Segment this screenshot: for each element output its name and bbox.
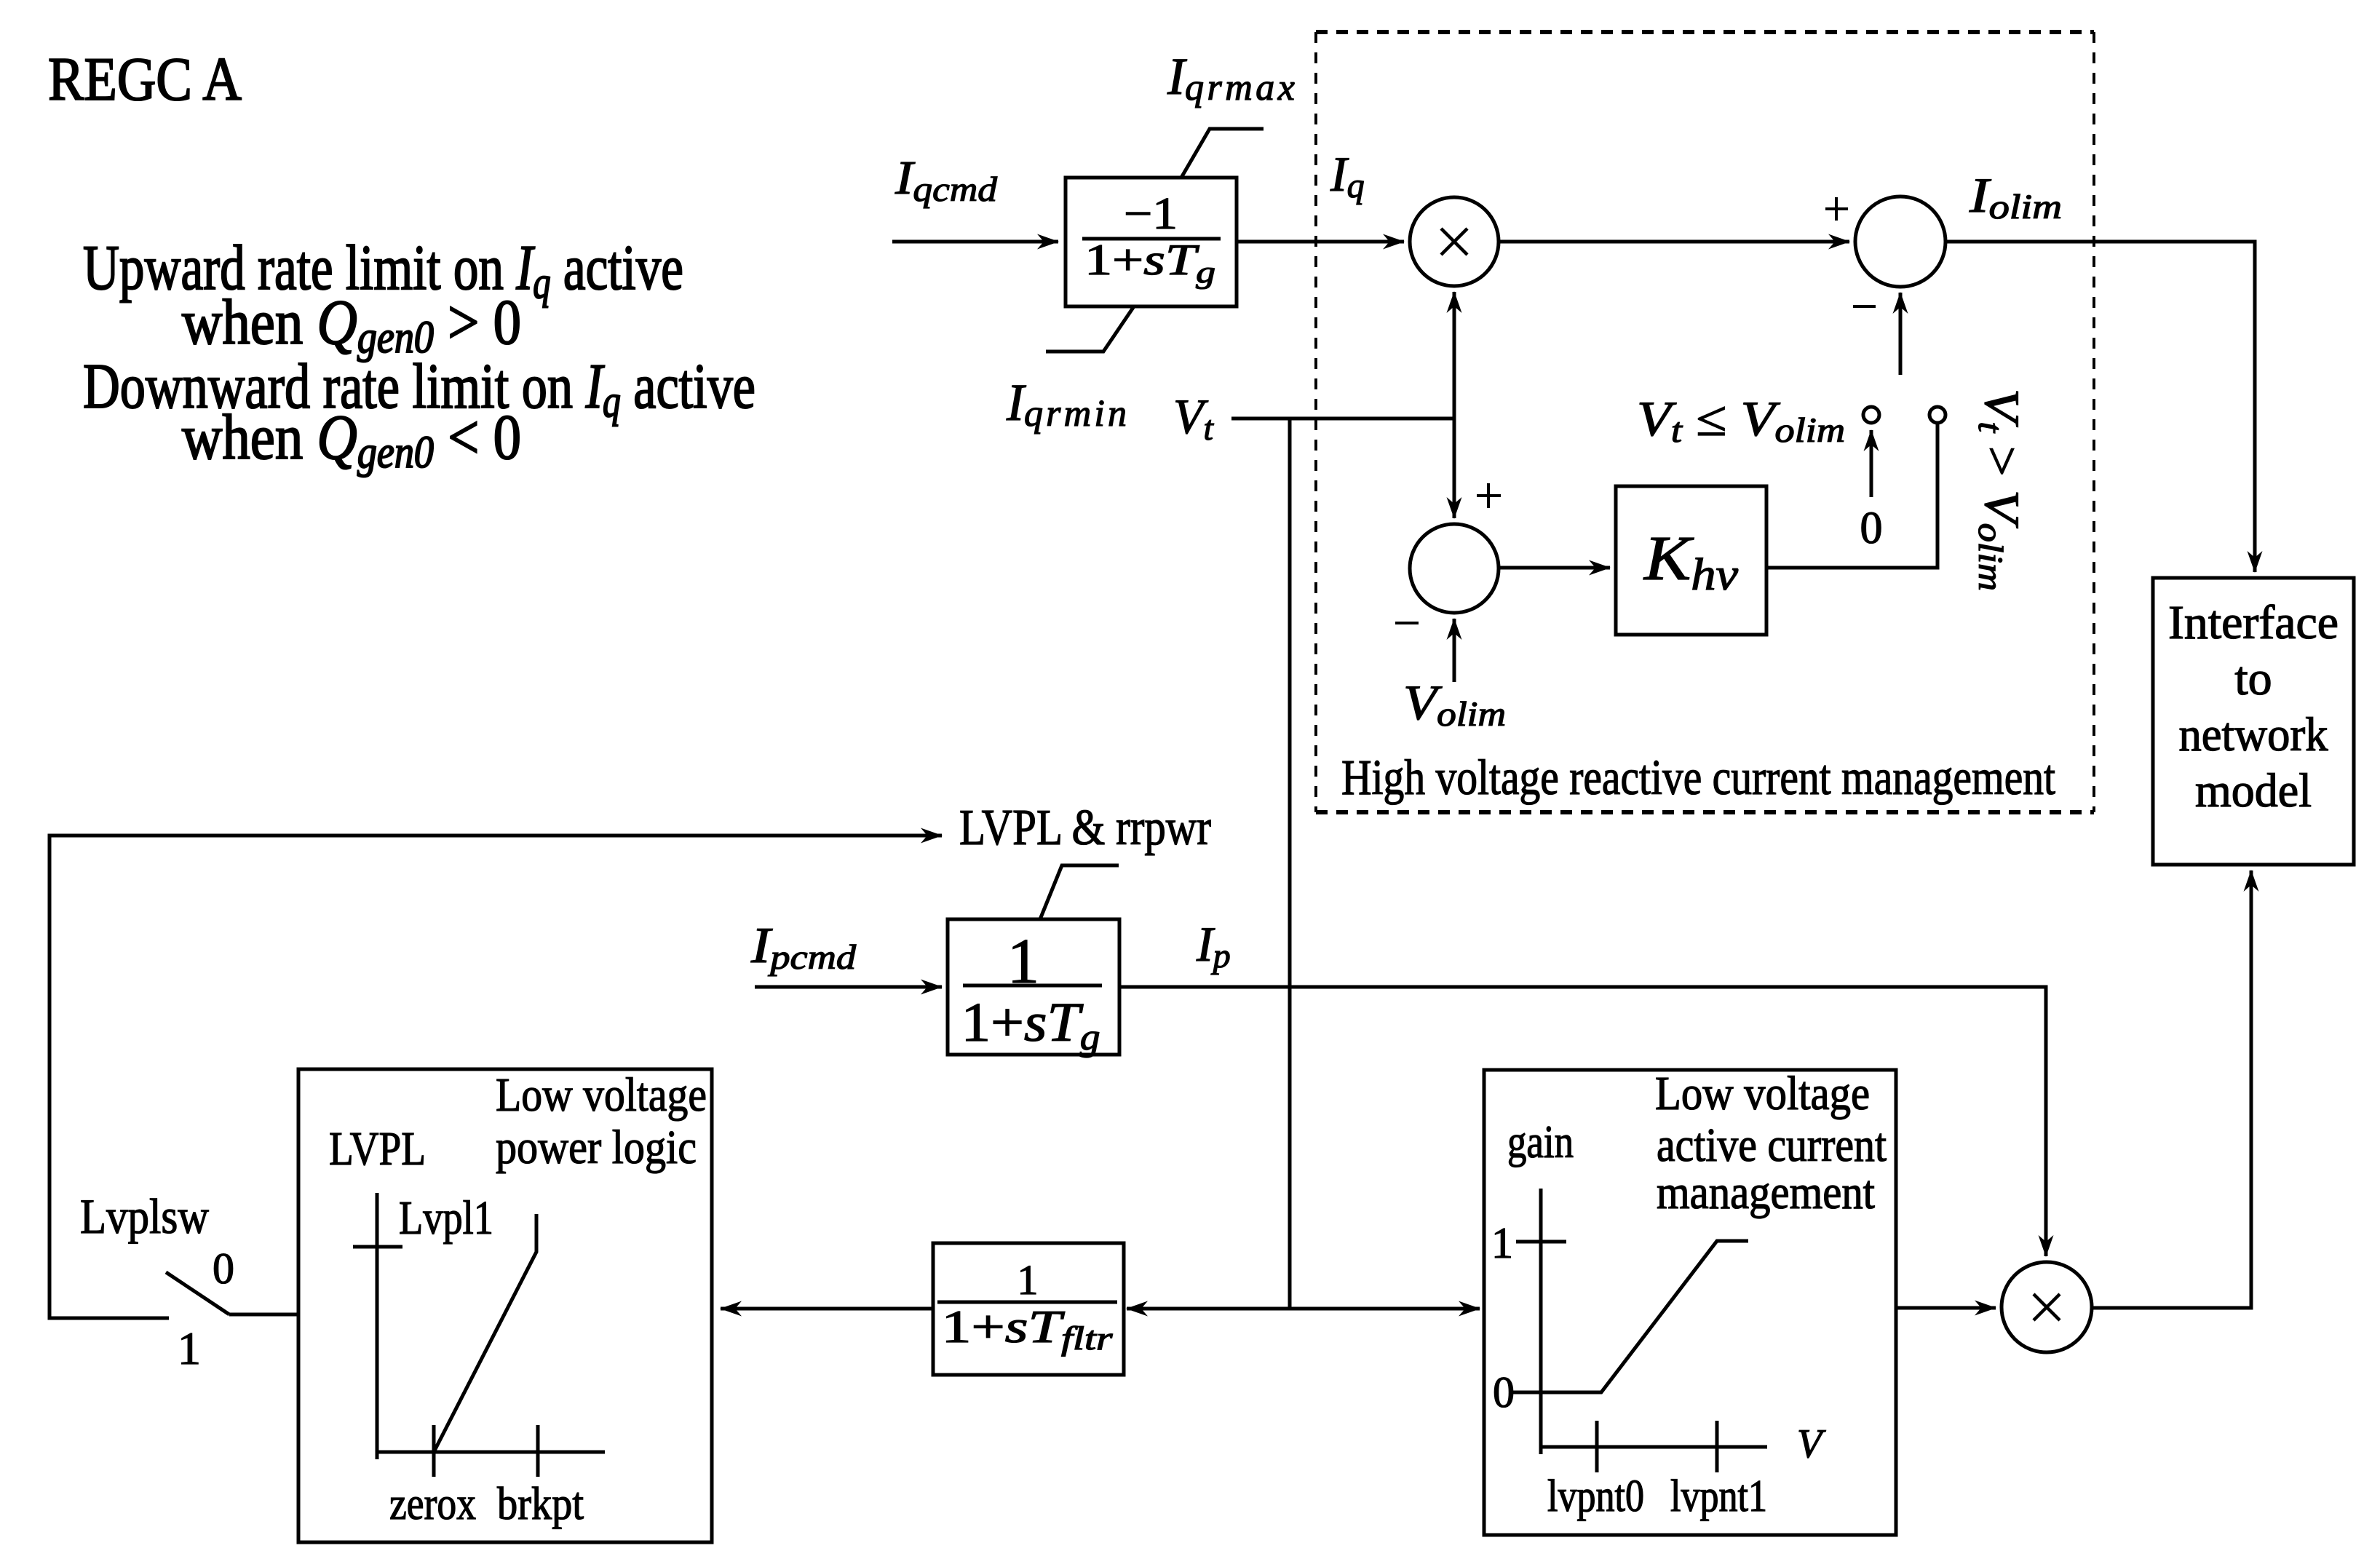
svg-text:1+sTfltr: 1+sTfltr (942, 1301, 1114, 1357)
svg-text:0: 0 (213, 1245, 234, 1293)
svg-text:network: network (2179, 708, 2328, 761)
svg-text:Iqrmin: Iqrmin (1006, 373, 1130, 435)
svg-text:0: 0 (1493, 1368, 1515, 1416)
svg-text:Vt: Vt (1173, 389, 1215, 448)
svg-text:lvpnt1: lvpnt1 (1670, 1472, 1767, 1521)
svg-text:1: 1 (1491, 1219, 1513, 1267)
svg-text:when Qgen0 < 0: when Qgen0 < 0 (182, 402, 521, 477)
svg-text:Khv: Khv (1643, 523, 1739, 600)
svg-text:REGC A: REGC A (48, 45, 242, 114)
svg-text:−1: −1 (1124, 189, 1178, 239)
svg-text:Vt > Volim: Vt > Volim (1971, 389, 2030, 591)
svg-text:gain: gain (1507, 1116, 1574, 1167)
svg-text:High voltage reactive current: High voltage reactive current management (1341, 750, 2055, 805)
svg-text:Lvplsw: Lvplsw (80, 1189, 209, 1244)
svg-text:Lvpl1: Lvpl1 (399, 1191, 493, 1245)
svg-text:1: 1 (178, 1322, 201, 1374)
svg-text:Upward rate limit on Iq active: Upward rate limit on Iq active (83, 233, 683, 308)
svg-text:Vt ≤ Volim: Vt ≤ Volim (1637, 391, 1845, 450)
svg-text:Low voltage: Low voltage (496, 1068, 707, 1122)
svg-text:management: management (1657, 1166, 1875, 1219)
svg-text:power logic: power logic (496, 1121, 697, 1174)
svg-text:zerox: zerox (389, 1477, 476, 1529)
svg-text:Low voltage: Low voltage (1655, 1067, 1870, 1120)
svg-text:Ip: Ip (1196, 916, 1231, 975)
svg-text:to: to (2234, 652, 2272, 705)
svg-text:lvpnt0: lvpnt0 (1547, 1472, 1644, 1521)
svg-text:Iqcmd: Iqcmd (895, 151, 998, 209)
svg-text:LVPL: LVPL (329, 1122, 426, 1175)
svg-text:1+sTg: 1+sTg (961, 992, 1100, 1058)
svg-text:1: 1 (1018, 1256, 1039, 1304)
svg-text:V: V (1797, 1421, 1826, 1467)
svg-text:1+sTg: 1+sTg (1084, 236, 1215, 290)
svg-text:Ipcmd: Ipcmd (750, 918, 857, 977)
svg-text:0: 0 (1860, 504, 1883, 553)
svg-text:Interface: Interface (2168, 596, 2339, 649)
svg-text:Iolim: Iolim (1969, 167, 2062, 226)
svg-text:Iqrmax: Iqrmax (1167, 47, 1298, 108)
svg-text:model: model (2195, 764, 2312, 817)
svg-text:brkpt: brkpt (497, 1477, 584, 1529)
svg-text:Iq: Iq (1330, 146, 1365, 205)
svg-text:Volim: Volim (1403, 675, 1506, 734)
svg-text:active current: active current (1657, 1119, 1887, 1172)
svg-text:LVPL & rrpwr: LVPL & rrpwr (959, 800, 1211, 856)
